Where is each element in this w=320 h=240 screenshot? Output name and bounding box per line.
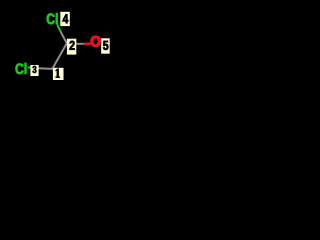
atom-number box 4 — [60, 12, 70, 26]
atom-number box 3 — [30, 65, 38, 76]
atom label O5 — [91, 36, 100, 47]
atom-number box 5 — [101, 38, 110, 53]
atom label Cl4 — [47, 13, 58, 24]
atom label Cl3 — [16, 63, 27, 74]
bond C1-Cl3 (carbon gray half) — [37, 67, 53, 70]
bond Cl4-C2 (chlorine green half) — [57, 25, 60, 32]
bond Cl4-C2 (carbon gray half) — [60, 31, 67, 43]
atom-number box 1 — [53, 68, 64, 80]
bond C2-C1 — [53, 43, 67, 68]
background — [0, 0, 123, 88]
bond C1-Cl3 (chlorine green half) — [28, 66, 37, 69]
atom-number box 2 — [67, 39, 76, 55]
bond C2-O5 (oxygen red half) — [84, 42, 91, 45]
bond C2-O5 (carbon gray half) — [70, 43, 84, 45]
